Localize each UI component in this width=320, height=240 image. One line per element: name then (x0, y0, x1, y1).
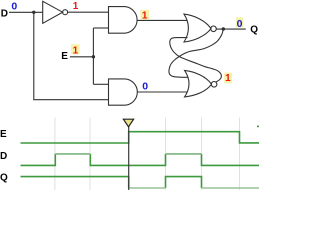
wire E to bottom AND input (93, 83, 108, 85)
wire top AND to top NOR (137, 19, 187, 21)
value 0 at Q (highlighted) (236, 17, 244, 30)
feedback wire from Q junction to bottom NOR input (169, 29, 223, 77)
value 1 at top AND output (highlighted) (141, 10, 150, 22)
wire D input (9, 11, 43, 13)
svg-text:1: 1 (73, 46, 79, 57)
svg-text:0: 0 (142, 80, 148, 92)
AND gate bottom (109, 79, 138, 105)
trace Q high segments (21, 177, 202, 188)
svg-text:D: D (1, 8, 8, 19)
svg-text:1: 1 (73, 1, 79, 12)
NOR gate bottom (185, 70, 217, 97)
svg-text:0: 0 (11, 0, 17, 12)
trace E fragment far right (257, 125, 259, 127)
wire NOR1 output to Q (216, 28, 246, 30)
AND gate top (109, 7, 138, 34)
wire E to top AND input (93, 27, 108, 29)
trace D high segments (55, 153, 201, 155)
trace Q low segments (129, 187, 259, 189)
NOR gate top (184, 14, 216, 42)
wire E vertical (92, 28, 94, 84)
cursor line (128, 121, 130, 190)
trace E (21, 132, 260, 143)
svg-text:1: 1 (225, 73, 231, 84)
wire D to bottom AND gate (34, 12, 109, 99)
svg-text:Q: Q (0, 173, 8, 184)
svg-text:Q: Q (250, 25, 258, 36)
wire NOT output to top AND input (68, 11, 109, 13)
value 1 on node E (highlighted) (71, 44, 79, 56)
svg-text:0: 0 (237, 18, 243, 30)
cursor marker triangle (123, 119, 133, 127)
timing gridlines (55, 118, 240, 191)
junction on D wire (32, 11, 35, 14)
feedback wire from bottom NOR output to top NOR input (170, 38, 222, 82)
svg-text:D: D (0, 151, 7, 162)
wire bottom AND to bottom NOR (137, 91, 187, 93)
svg-text:E: E (61, 51, 68, 62)
svg-text:E: E (0, 129, 7, 140)
wire E input (70, 56, 94, 58)
value 1 at bottom NOR output (highlighted) (224, 73, 232, 85)
junction on E wire (92, 55, 95, 58)
trace D low segments (21, 154, 260, 165)
NOT gate (43, 1, 68, 23)
junction at Q node (222, 27, 225, 30)
